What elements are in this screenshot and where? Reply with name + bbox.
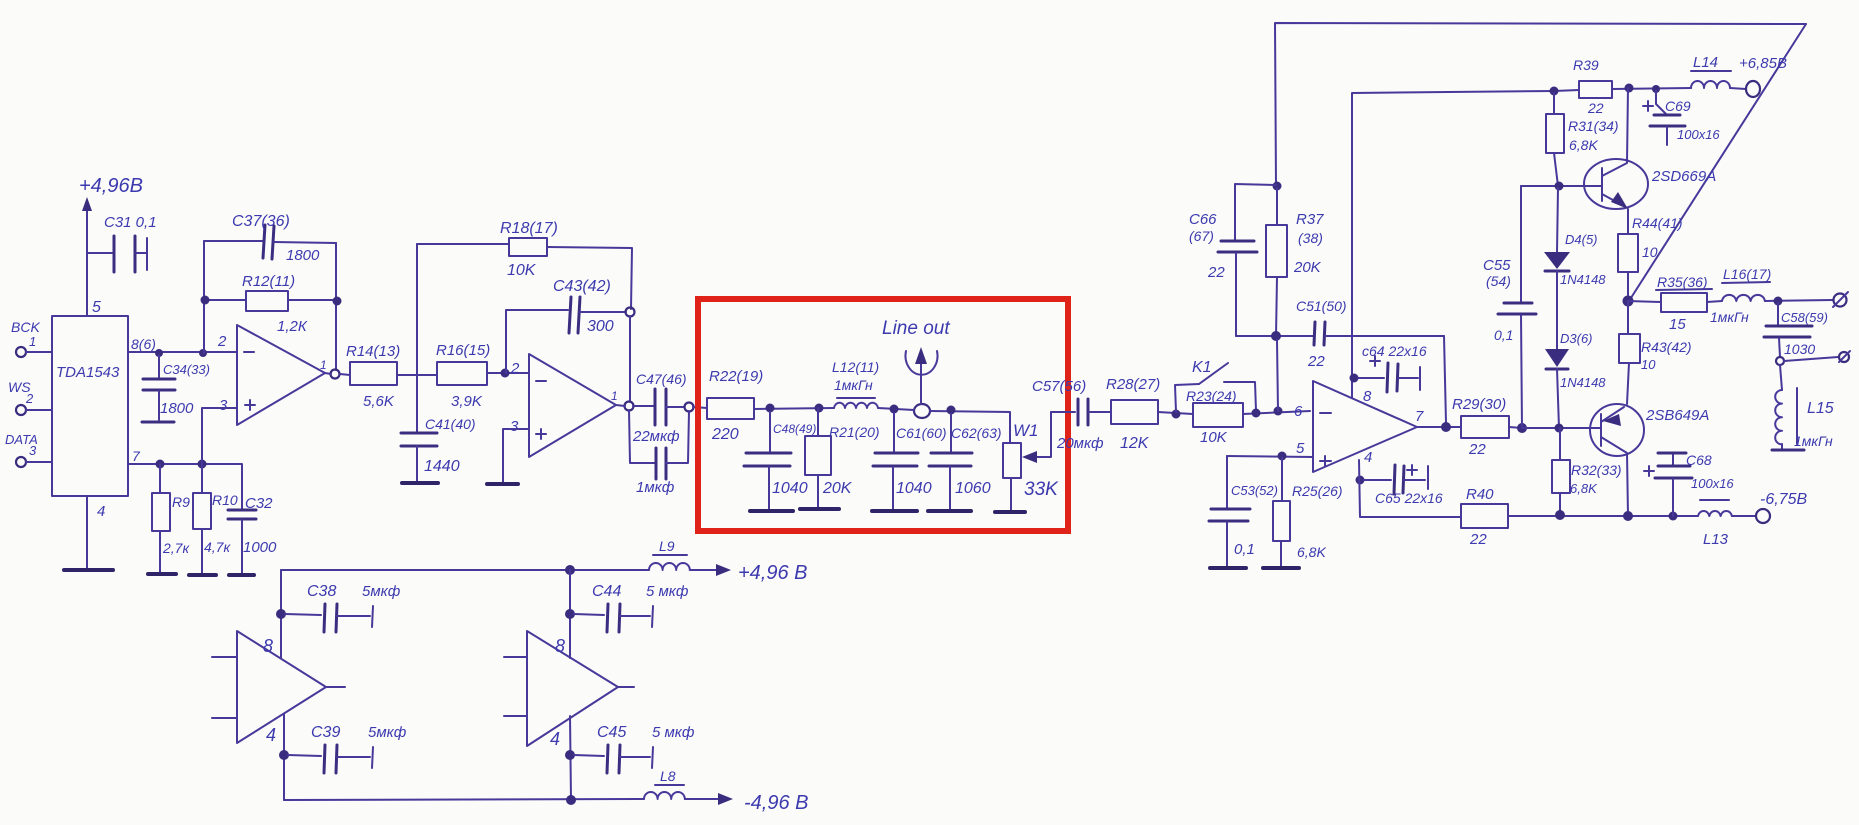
svg-text:22: 22: [1207, 264, 1225, 281]
inductor L12: [832, 359, 879, 408]
svg-text:1: 1: [29, 334, 36, 349]
svg-text:6,8K: 6,8K: [1569, 137, 1598, 153]
svg-text:5мкф: 5мкф: [362, 583, 401, 600]
node pin6 riser junction: [1274, 407, 1283, 416]
capacitor C47: [632, 371, 687, 445]
resistor R23: [1186, 388, 1243, 446]
svg-text:L12(11): L12(11): [832, 359, 879, 375]
svg-text:20K: 20K: [822, 480, 853, 497]
node C58 bottom ring: [1776, 357, 1784, 365]
svg-text:+6,85B: +6,85B: [1739, 55, 1787, 72]
svg-text:R16(15): R16(15): [436, 342, 490, 359]
svg-text:220: 220: [711, 426, 739, 443]
svg-text:1мкГн: 1мкГн: [1710, 309, 1749, 325]
wire top rail y23: [1275, 23, 1806, 186]
potentiometer W1: [1003, 412, 1059, 510]
node C47 out ring: [685, 403, 694, 412]
terminal output jack top: [1833, 292, 1848, 307]
svg-text:R14(13): R14(13): [346, 343, 400, 360]
resistor R29: [1452, 396, 1509, 458]
wire bottom +4.96 rail: [281, 569, 649, 571]
node pin2 op2 junction: [501, 369, 510, 378]
svg-text:R22(19): R22(19): [709, 368, 763, 385]
wire R28 out: [1158, 412, 1193, 414]
node pin7 R9 junction: [156, 460, 165, 469]
wire L16 to jack: [1765, 300, 1833, 301]
op-amp A2: [510, 354, 618, 457]
node R31/D4 junction: [1555, 182, 1564, 191]
svg-text:0,1: 0,1: [1234, 541, 1255, 558]
node rail junction 2: [566, 795, 576, 805]
transistor Q1 2SD669A: [1584, 88, 1716, 234]
svg-text:C62(63): C62(63): [951, 425, 1002, 441]
resistor R22: [707, 368, 763, 443]
node R28/R23 junction: [1172, 410, 1181, 419]
IC U1 TDA1543: [52, 316, 128, 496]
svg-text:2: 2: [25, 391, 34, 406]
svg-text:5: 5: [1296, 440, 1305, 457]
svg-text:4,7к: 4,7к: [204, 539, 231, 555]
svg-text:1040: 1040: [896, 480, 932, 497]
capacitor C64: [1358, 343, 1427, 392]
svg-text:(67): (67): [1189, 228, 1214, 244]
svg-text:-6,75B: -6,75B: [1760, 491, 1807, 508]
node R21 junction: [815, 404, 824, 413]
node C38 junction: [276, 609, 286, 619]
svg-text:R28(27): R28(27): [1106, 376, 1160, 393]
svg-text:8: 8: [555, 636, 565, 656]
svg-text:3,9K: 3,9K: [451, 393, 483, 410]
svg-text:L15: L15: [1807, 400, 1834, 417]
svg-text:R23(24): R23(24): [1186, 388, 1237, 404]
pin 8(6) wire to op-amp A1: [128, 336, 237, 352]
svg-text:C65 22x16: C65 22x16: [1375, 490, 1443, 506]
svg-text:L8: L8: [660, 768, 676, 784]
inductor L14: [1691, 54, 1731, 88]
capacitor C37: [204, 213, 336, 264]
capacitor C34: [142, 355, 175, 422]
node R23 right junction: [1252, 409, 1261, 418]
wire R16 to op2: [487, 372, 529, 374]
svg-text:12K: 12K: [1120, 435, 1150, 452]
node D3/R32 junction: [1555, 424, 1564, 433]
wire node to W1: [930, 411, 1010, 443]
node R39 right junction: [1625, 84, 1634, 93]
capacitor C65: [1364, 465, 1443, 506]
node rail junction: [565, 565, 575, 575]
wire rail arrow: [690, 564, 731, 576]
svg-text:C69: C69: [1665, 98, 1691, 114]
wire base Q2: [1522, 427, 1601, 429]
svg-text:C31 0,1: C31 0,1: [104, 214, 157, 231]
capacitor C62: [929, 414, 1002, 509]
svg-text:C38: C38: [307, 583, 336, 600]
svg-text:R25(26): R25(26): [1292, 483, 1343, 499]
capacitor C53: [1209, 456, 1278, 566]
svg-text:+4,96 B: +4,96 B: [738, 562, 808, 584]
svg-text:15: 15: [1669, 316, 1686, 333]
capacitor C69: [1643, 91, 1720, 145]
capacitor C55: [1483, 186, 1536, 428]
svg-text:R31(34): R31(34): [1568, 118, 1619, 134]
wire op2 out: [616, 405, 655, 406]
svg-text:C48(49): C48(49): [773, 422, 816, 436]
svg-text:L9: L9: [659, 538, 675, 554]
wire L12 to node: [878, 408, 914, 410]
capacitor C45: [574, 724, 695, 773]
ground W1: [995, 510, 1025, 514]
resistor R9: [152, 464, 190, 573]
wire feedback drop to output: [1444, 336, 1446, 423]
ground R25: [1263, 566, 1299, 570]
svg-text:1: 1: [320, 358, 327, 372]
svg-text:BCK: BCK: [11, 319, 40, 335]
capacitor C31: [87, 236, 147, 272]
svg-text:C44: C44: [592, 583, 621, 600]
resistor R32: [1552, 428, 1622, 515]
svg-text:1800: 1800: [286, 247, 320, 264]
capacitor C38: [285, 583, 401, 632]
svg-text:100x16: 100x16: [1691, 476, 1734, 491]
wire base Q1: [1521, 185, 1602, 187]
svg-text:1мкГн: 1мкГн: [834, 377, 873, 393]
wire C41/R18 riser: [416, 244, 418, 432]
svg-text:L14: L14: [1693, 54, 1718, 71]
svg-text:R32(33): R32(33): [1571, 462, 1622, 478]
resistor R40: [1461, 486, 1508, 548]
power rail +4,96V arrow: [82, 197, 92, 316]
diode D4 1N4148: [1544, 188, 1606, 349]
svg-text:R35(36): R35(36): [1657, 274, 1708, 290]
resistor R31: [1546, 93, 1619, 186]
ground C62: [928, 509, 971, 513]
wire op1 output: [325, 373, 350, 375]
svg-text:22: 22: [1469, 531, 1487, 548]
ground C53: [1210, 566, 1246, 570]
svg-text:c64 22x16: c64 22x16: [1362, 343, 1427, 359]
svg-text:5,6K: 5,6K: [363, 393, 395, 410]
wire R39 to L14: [1612, 88, 1691, 89]
svg-text:5 мкф: 5 мкф: [652, 724, 695, 741]
svg-text:5 мкф: 5 мкф: [646, 583, 689, 600]
wire op4 pin4 drop: [283, 714, 285, 800]
svg-text:R40: R40: [1466, 486, 1494, 503]
svg-text:6: 6: [1294, 403, 1303, 420]
svg-text:C68: C68: [1686, 452, 1712, 468]
svg-text:C41(40): C41(40): [425, 416, 476, 432]
node C45 junction: [565, 750, 575, 760]
svg-text:10: 10: [1642, 244, 1658, 260]
svg-text:100x16: 100x16: [1677, 127, 1720, 142]
wire feedback y336: [1236, 335, 1313, 337]
svg-text:8: 8: [263, 636, 273, 656]
svg-text:5: 5: [92, 299, 101, 316]
svg-text:4: 4: [97, 503, 105, 520]
wire pin4 drop: [1359, 460, 1461, 517]
svg-text:2SB649A: 2SB649A: [1645, 407, 1709, 424]
svg-text:22мкф: 22мкф: [632, 428, 680, 445]
svg-text:C66: C66: [1189, 211, 1217, 228]
ground C32: [229, 573, 254, 577]
wire R14 to R16: [397, 374, 437, 376]
terminal output jack bottom: [1839, 351, 1850, 362]
svg-text:1,2К: 1,2К: [277, 318, 308, 335]
resistor R44: [1618, 215, 1683, 301]
inductor L13: [1698, 500, 1732, 548]
terminal Line out node: [906, 347, 938, 418]
capacitor C58: [1764, 303, 1828, 357]
svg-text:22: 22: [1468, 441, 1486, 458]
node base junction: [1517, 423, 1527, 433]
svg-text:R12(11): R12(11): [242, 273, 295, 290]
node C44 junction: [565, 609, 575, 619]
resistor R37: [1266, 188, 1324, 336]
inductor L16: [1707, 266, 1771, 325]
diode D3 1N4148: [1545, 331, 1606, 428]
wire op2 pin3 to ground: [503, 429, 529, 483]
node pin5 R25 junction: [1278, 452, 1287, 461]
op-amp A4: [212, 631, 345, 745]
capacitor C47b 1mkf parallel: [629, 410, 689, 496]
svg-text:C53(52): C53(52): [1231, 483, 1278, 498]
svg-text:1мкф: 1мкф: [636, 479, 675, 496]
svg-text:C43(42): C43(42): [553, 278, 611, 295]
svg-text:R21(20): R21(20): [829, 424, 880, 440]
node R39 left junction: [1550, 87, 1559, 96]
svg-text:0,1: 0,1: [1494, 327, 1513, 343]
svg-text:33K: 33K: [1024, 479, 1059, 500]
svg-text:10: 10: [1641, 357, 1656, 372]
svg-text:1N4148: 1N4148: [1560, 375, 1606, 390]
resistor R10: [193, 464, 238, 574]
svg-text:R10: R10: [212, 492, 238, 508]
svg-text:20мкф: 20мкф: [1056, 435, 1104, 452]
svg-text:7: 7: [132, 448, 141, 464]
ground C41: [402, 481, 438, 485]
wire pin6 riser: [1277, 340, 1278, 411]
terminal BCK pin 1: [11, 319, 52, 357]
svg-text:20K: 20K: [1293, 259, 1322, 276]
wire C47 to R22: [693, 407, 707, 408]
svg-text:5мкф: 5мкф: [368, 724, 407, 741]
wire op4 pin8 riser: [280, 570, 282, 658]
svg-text:1: 1: [611, 389, 618, 403]
node C62 junction: [947, 406, 956, 415]
svg-text:1030: 1030: [1784, 341, 1815, 357]
svg-text:3: 3: [219, 397, 228, 414]
ground R21: [800, 507, 839, 511]
svg-text:R29(30): R29(30): [1452, 396, 1506, 413]
capacitor C48: [744, 412, 816, 509]
svg-text:TDA1543: TDA1543: [56, 364, 120, 381]
svg-text:C39: C39: [311, 724, 340, 741]
svg-text:C58(59): C58(59): [1781, 310, 1828, 325]
svg-text:R37: R37: [1296, 211, 1324, 228]
svg-text:3: 3: [29, 443, 37, 458]
svg-text:3: 3: [510, 418, 519, 435]
svg-text:+4,96B: +4,96B: [79, 175, 143, 197]
svg-text:R39: R39: [1573, 57, 1599, 73]
svg-text:4: 4: [266, 725, 276, 745]
svg-text:C51(50): C51(50): [1296, 298, 1347, 314]
svg-text:C34(33): C34(33): [163, 362, 210, 377]
op-amp A1: [217, 325, 327, 425]
svg-text:2SD669A: 2SD669A: [1651, 168, 1716, 185]
wire feedback riser: [629, 316, 631, 402]
svg-text:4: 4: [550, 729, 560, 749]
ground C61: [872, 509, 917, 513]
capacitor C61: [873, 413, 947, 509]
node R12 left: [201, 296, 210, 305]
resistor R14: [346, 343, 400, 410]
node op1 output ring: [331, 370, 340, 379]
ground C48: [750, 509, 793, 513]
wire pin5: [1227, 456, 1313, 457]
svg-text:C37(36): C37(36): [232, 213, 290, 230]
wire bottom rail y516: [1508, 515, 1698, 517]
svg-text:2,7к: 2,7к: [162, 540, 190, 556]
svg-text:1мкГн: 1мкГн: [1794, 433, 1833, 449]
capacitor C57: [1032, 378, 1111, 452]
resistor R16: [436, 342, 490, 410]
svg-text:Line out: Line out: [882, 318, 950, 339]
svg-text:R44(41): R44(41): [1632, 215, 1683, 231]
svg-text:8: 8: [1363, 388, 1372, 405]
resistor R12: [204, 241, 336, 370]
svg-text:1N4148: 1N4148: [1560, 272, 1606, 287]
svg-text:4: 4: [1364, 449, 1372, 466]
svg-text:L13: L13: [1703, 531, 1729, 548]
terminal WS pin 2: [8, 379, 52, 415]
svg-text:2: 2: [217, 333, 227, 350]
node C43/R18 ring: [626, 308, 635, 317]
node midpoint junction: [1623, 296, 1634, 307]
svg-text:D4(5): D4(5): [1565, 232, 1598, 247]
node C58 junction: [1774, 297, 1783, 306]
node pin7 R10 junction: [198, 460, 207, 469]
svg-text:C32: C32: [245, 495, 273, 512]
svg-text:W1: W1: [1013, 421, 1039, 440]
svg-text:1000: 1000: [243, 539, 277, 556]
node C66/R37 junction: [1273, 182, 1282, 191]
svg-text:L16(17): L16(17): [1723, 266, 1771, 282]
resistor R21: [805, 408, 880, 508]
op-amp A3: [1294, 381, 1424, 472]
node Q2 collector junction: [1623, 511, 1633, 521]
svg-text:8(6): 8(6): [131, 336, 156, 352]
capacitor C44: [574, 583, 689, 632]
wire pin8 supply riser: [1352, 91, 1554, 398]
wire R22 to L12: [754, 408, 834, 409]
svg-text:C57(56): C57(56): [1032, 378, 1086, 395]
svg-text:C45: C45: [597, 724, 626, 741]
node pin8 junction: [155, 349, 163, 357]
svg-text:1040: 1040: [772, 480, 808, 497]
node pin8 C64 junction: [1350, 374, 1359, 383]
inductor L15: [1772, 365, 1834, 450]
resistor R28: [1106, 376, 1160, 452]
svg-text:C61(60): C61(60): [896, 425, 947, 441]
inductor L8: [644, 768, 685, 799]
wire to jack 2: [1784, 357, 1838, 361]
resistor R18: [417, 220, 632, 309]
resistor R39: [1573, 57, 1612, 116]
wire R23 to op3 pin6: [1243, 411, 1310, 414]
terminal +6,85V: [1730, 55, 1787, 97]
node C39 junction: [279, 750, 289, 760]
wire op-amp A1 pin3: [202, 408, 237, 464]
svg-text:C55: C55: [1483, 257, 1511, 274]
ground R9: [148, 572, 176, 576]
svg-text:(38): (38): [1298, 230, 1323, 246]
svg-text:-4,96 B: -4,96 B: [744, 792, 808, 814]
pin 4 wire: [87, 496, 105, 570]
svg-text:C47(46): C47(46): [636, 371, 687, 387]
switch K1: [1175, 359, 1256, 412]
svg-text:R18(17): R18(17): [500, 220, 558, 237]
wire R29 to bases: [1509, 427, 1522, 428]
transistor Q2 2SB649A: [1590, 404, 1709, 516]
red highlight box: [698, 299, 1068, 531]
node R32 bottom junction: [1555, 510, 1565, 520]
wire diagonal brace: [1629, 24, 1806, 301]
svg-text:22: 22: [1307, 353, 1325, 370]
node R37 bottom junction: [1271, 331, 1281, 341]
svg-text:10K: 10K: [507, 262, 537, 279]
svg-text:1440: 1440: [424, 458, 460, 475]
svg-text:6,8K: 6,8K: [1297, 544, 1326, 560]
svg-text:K1: K1: [1192, 359, 1212, 376]
svg-text:1060: 1060: [955, 480, 991, 497]
ground op2: [487, 482, 518, 486]
node output junction: [1441, 422, 1451, 432]
capacitor C39: [288, 724, 407, 773]
wire op5 pin8 riser: [569, 570, 571, 658]
node C68 junction: [1669, 512, 1678, 521]
node op2 output ring: [625, 402, 634, 411]
svg-text:2: 2: [510, 360, 520, 377]
node C61 junction: [890, 405, 899, 414]
svg-text:22: 22: [1587, 100, 1604, 116]
pin 7 wire: [128, 448, 242, 505]
inductor L9: [649, 538, 690, 570]
svg-text:R9: R9: [172, 494, 190, 510]
svg-text:D3(6): D3(6): [1560, 331, 1593, 346]
terminal -6,75V: [1732, 491, 1807, 523]
capacitor C41: [401, 416, 476, 482]
resistor R35: [1628, 274, 1712, 333]
resistor R25: [1273, 458, 1343, 566]
capacitor C51: [1296, 298, 1444, 370]
node C69 junction: [1652, 85, 1660, 93]
svg-text:300: 300: [587, 318, 614, 335]
capacitor C66: [1189, 184, 1276, 336]
wire supply y91: [1554, 90, 1579, 91]
svg-text:(54): (54): [1486, 273, 1511, 289]
terminal DATA pin 3: [5, 432, 52, 467]
wire bottom -4.96 rail: [284, 799, 644, 800]
capacitor C68: [1644, 452, 1734, 516]
op-amp A5: [504, 631, 634, 749]
wire op5 pin4 drop: [570, 716, 571, 800]
svg-text:6,8K: 6,8K: [1570, 481, 1598, 496]
resistor R43: [1619, 301, 1692, 404]
svg-text:7: 7: [1415, 408, 1424, 425]
svg-text:1800: 1800: [160, 400, 194, 417]
node R12 right: [333, 297, 342, 306]
ground R10: [189, 573, 216, 577]
wire op3 output: [1417, 426, 1461, 428]
